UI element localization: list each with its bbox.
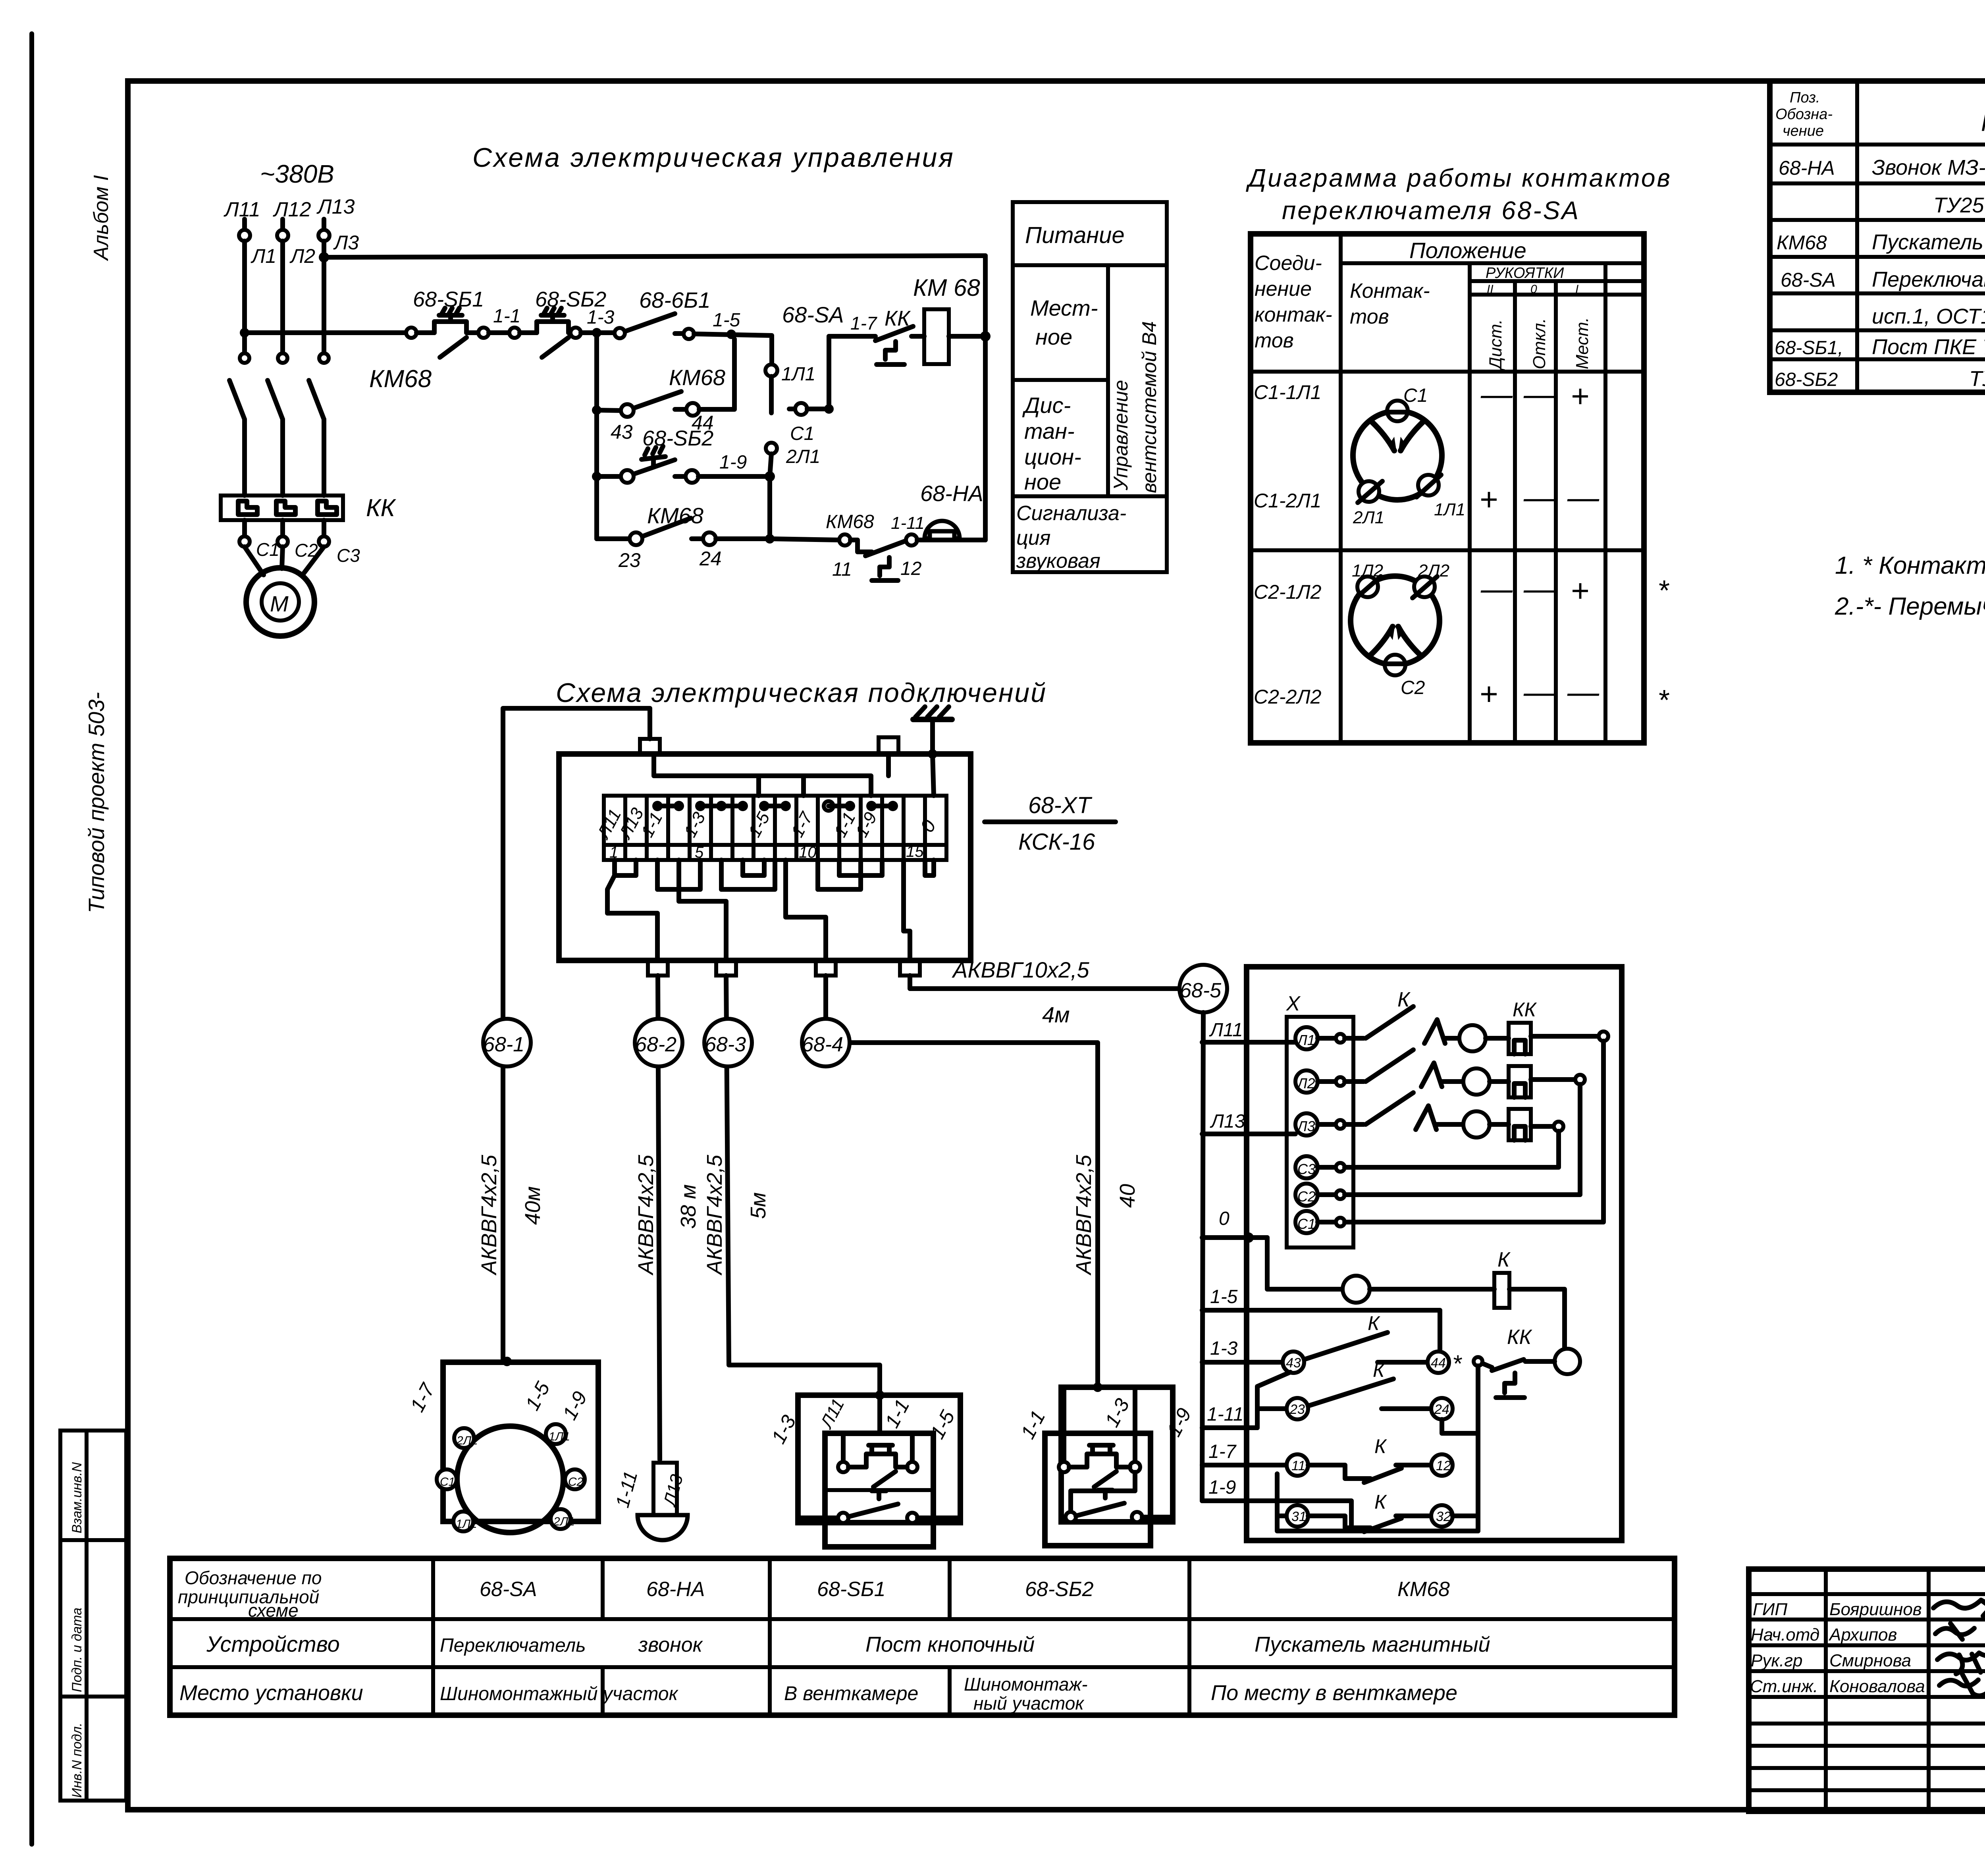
- svg-text:1-11: 1-11: [891, 513, 925, 533]
- svg-text:Обозна-: Обозна-: [1775, 106, 1833, 123]
- svg-text:1-5: 1-5: [1210, 1286, 1238, 1307]
- node holding tap: [727, 330, 736, 339]
- svg-text:—: —: [1480, 571, 1513, 606]
- terminal C2: [1295, 1184, 1345, 1206]
- svg-text:ный участок: ный участок: [973, 1693, 1085, 1714]
- wire: [581, 330, 615, 335]
- jumper dots cells 3-4: [652, 801, 684, 811]
- svg-text:Дис-: Дис-: [1022, 393, 1071, 418]
- svg-text:М: М: [270, 591, 289, 616]
- wire 1-9: [1202, 1501, 1351, 1531]
- svg-text:2.-*- Перемычку снять: 2.-*- Перемычку снять: [1835, 593, 1985, 620]
- svg-text:Л11: Л11: [1209, 1020, 1243, 1041]
- svg-text:Нач.отд: Нач.отд: [1751, 1625, 1819, 1645]
- svg-text:II: II: [1487, 283, 1494, 296]
- node on L3 feeding control bus: [319, 252, 329, 262]
- svg-text:1Л2: 1Л2: [1352, 561, 1383, 580]
- svg-text:Подп. и дата: Подп. и дата: [69, 1608, 85, 1692]
- svg-text:АКВВГ4х2,5: АКВВГ4х2,5: [634, 1155, 658, 1276]
- svg-text:*: *: [1452, 1350, 1462, 1377]
- svg-text:тан-: тан-: [1024, 418, 1075, 443]
- svg-text:1-9: 1-9: [719, 452, 747, 473]
- svg-text:КМ68: КМ68: [1777, 231, 1827, 254]
- svg-text:Пост ПКЕ 712-243, 1/2",: Пост ПКЕ 712-243, 1/2",: [1872, 335, 1985, 359]
- cable circle 68-3: [704, 1019, 752, 1066]
- svg-text:68-SБ2: 68-SБ2: [1775, 369, 1838, 390]
- svg-text:Устройство: Устройство: [206, 1631, 340, 1656]
- pushbutton 68-SB1 NC: [416, 308, 478, 357]
- svg-text:Мест.: Мест.: [1573, 317, 1592, 369]
- svg-text:КМ68: КМ68: [369, 365, 432, 393]
- node ground tap: [928, 749, 937, 759]
- pushbutton 68-SB2 NC: [520, 308, 570, 357]
- svg-text:Откл.: Откл.: [1530, 318, 1549, 369]
- svg-text:схеме: схеме: [248, 1600, 299, 1621]
- svg-text:11: 11: [832, 559, 852, 580]
- wire 0 to lamp: [1267, 1238, 1343, 1289]
- main contact K row3: [1345, 1093, 1463, 1130]
- terminal C3: [319, 536, 329, 547]
- svg-text:15: 15: [906, 843, 924, 860]
- svg-text:КМ68: КМ68: [647, 503, 703, 528]
- svg-text:Мест-: Мест-: [1030, 295, 1098, 320]
- svg-text:10: 10: [799, 844, 817, 861]
- svg-text:1Л1: 1Л1: [1434, 500, 1465, 519]
- svg-text:68-SБ2: 68-SБ2: [1025, 1578, 1094, 1601]
- svg-text:24: 24: [1434, 1402, 1449, 1417]
- wire phase C lead: [322, 219, 326, 230]
- node 1-3 junction: [592, 328, 601, 337]
- lamp HL: [1343, 1276, 1370, 1303]
- svg-text:68-ХТ: 68-ХТ: [1028, 792, 1093, 818]
- svg-text:Л3: Л3: [1297, 1118, 1315, 1134]
- link 43 to 23: [1257, 1372, 1290, 1428]
- aux terminal 11: [1287, 1454, 1308, 1476]
- svg-text:Л12: Л12: [273, 198, 311, 221]
- wire phase C: [322, 241, 326, 353]
- terminal C2: [278, 536, 288, 547]
- internal wiring tangle below strip: [607, 860, 934, 960]
- node rail tap on L1: [240, 328, 249, 337]
- svg-text:КСК-16: КСК-16: [1018, 829, 1095, 855]
- svg-text:Схема электрическая управл: Схема электрическая управления: [472, 143, 955, 173]
- wire L13: [1202, 1132, 1295, 1136]
- state marks row4: [1479, 674, 1600, 711]
- svg-text:I: I: [1575, 283, 1578, 296]
- terminal right row1: [1599, 1032, 1608, 1041]
- svg-text:31: 31: [1291, 1509, 1307, 1524]
- heater KK row3: [1490, 1109, 1554, 1140]
- svg-text:1-5: 1-5: [713, 310, 740, 331]
- svg-text:68-SА: 68-SА: [782, 302, 844, 327]
- svg-text:12: 12: [900, 558, 921, 579]
- svg-text:24: 24: [699, 548, 722, 570]
- lamp row1: [1459, 1025, 1486, 1051]
- bottom link wire: [1277, 1474, 1478, 1531]
- svg-text:68-НА: 68-НА: [920, 481, 983, 506]
- svg-text:40м: 40м: [521, 1186, 545, 1225]
- svg-text:С2: С2: [568, 1475, 584, 1488]
- terminal L1: [239, 230, 250, 241]
- label 68-XT: [985, 792, 1116, 855]
- wire 32 to link: [1453, 1514, 1478, 1518]
- svg-text:68-SБ1: 68-SБ1: [413, 287, 484, 311]
- contact K NC 31-32: [1308, 1516, 1431, 1532]
- svg-text:КМ68: КМ68: [669, 365, 725, 390]
- svg-text:звонок: звонок: [638, 1633, 703, 1656]
- svg-text:Пускатель магнитный: Пускатель магнитный: [1255, 1633, 1490, 1656]
- svg-text:68-НА: 68-НА: [646, 1578, 705, 1601]
- switch state diagram C1: [1353, 401, 1442, 503]
- internal jumper bus above strip: [654, 754, 888, 796]
- svg-text:тов: тов: [1255, 329, 1294, 352]
- main contact K row1: [1345, 1006, 1459, 1043]
- jumper cells 11-12: [824, 801, 855, 811]
- state marks row3: [1480, 571, 1589, 608]
- svg-text:Пускатель магнитный: Пускатель магнитный: [1872, 230, 1985, 254]
- wire ground to cell 0: [933, 754, 934, 796]
- cable 68-5 run: [910, 976, 1179, 989]
- svg-text:4м: 4м: [1042, 1002, 1070, 1027]
- state marks row1: [1480, 376, 1589, 414]
- svg-text:1-9: 1-9: [1208, 1477, 1236, 1498]
- cable circle 68-5: [1179, 965, 1227, 1012]
- enclosure bottom tab C: [816, 960, 836, 976]
- jumper dots cells 5-7: [695, 801, 748, 811]
- svg-text:Л13: Л13: [1210, 1111, 1245, 1132]
- svg-text:Бояришнов: Бояришнов: [1829, 1600, 1922, 1619]
- svg-text:Сигнализа-: Сигнализа-: [1016, 502, 1126, 525]
- thermal contact KK NC: [1482, 1359, 1555, 1398]
- svg-text:2Л1: 2Л1: [786, 446, 820, 467]
- svg-text:X: X: [1286, 992, 1301, 1015]
- enclosure top tab 1: [640, 739, 660, 754]
- terminal box 68-XT enclosure: [559, 754, 971, 960]
- svg-text:+: +: [1571, 573, 1589, 608]
- svg-text:С1: С1: [440, 1475, 455, 1488]
- svg-text:ГИП: ГИП: [1753, 1600, 1787, 1619]
- svg-text:68-SБ1,: 68-SБ1,: [1775, 337, 1843, 359]
- svg-text:ТУ25-05-1045-76: ТУ25-05-1045-76: [1933, 193, 1985, 217]
- svg-text:—: —: [1567, 480, 1600, 515]
- cable circle 68-4: [802, 1019, 850, 1066]
- svg-text:—: —: [1480, 376, 1513, 412]
- contactor KM68 main contact C: [309, 353, 329, 496]
- main contact K row2: [1345, 1050, 1463, 1087]
- svg-text:—: —: [1523, 376, 1556, 412]
- svg-text:С1-1Л1: С1-1Л1: [1254, 381, 1321, 403]
- branch vertical 1-3: [594, 333, 599, 539]
- terminal L2: [1295, 1070, 1345, 1093]
- svg-text:1-7: 1-7: [850, 313, 877, 334]
- svg-text:+: +: [1479, 482, 1498, 517]
- contact K 23-24: [1308, 1379, 1431, 1409]
- svg-text:Инв.N подл.: Инв.N подл.: [69, 1723, 85, 1798]
- svg-text:Шиномонтаж-: Шиномонтаж-: [964, 1674, 1088, 1695]
- terminal L2: [277, 230, 288, 241]
- svg-text:тов: тов: [1350, 305, 1389, 328]
- wire phase A: [242, 241, 247, 353]
- enclosure bottom tab B: [716, 960, 736, 976]
- svg-text:КК: КК: [1507, 1326, 1533, 1349]
- pushbutton 68-SB2 NO 1-9 row: [592, 446, 770, 483]
- svg-text:*: *: [1657, 575, 1669, 607]
- bell 68-HA: [917, 521, 985, 540]
- signatures scribbles: [1933, 1598, 1985, 1696]
- svg-text:11: 11: [1291, 1458, 1305, 1473]
- svg-text:+: +: [1571, 378, 1589, 414]
- svg-text:АКВВГ4х2,5: АКВВГ4х2,5: [703, 1155, 727, 1276]
- svg-text:68-6Б1: 68-6Б1: [639, 287, 711, 312]
- wire to motor terminals: [242, 520, 247, 536]
- node 0 at box edge: [1243, 1232, 1254, 1243]
- svg-text:68-2: 68-2: [635, 1033, 676, 1056]
- svg-text:1Л1: 1Л1: [549, 1430, 570, 1443]
- svg-text:Ст.инж.: Ст.инж.: [1750, 1677, 1818, 1696]
- svg-text:*: *: [1657, 684, 1669, 716]
- svg-text:С1-2Л1: С1-2Л1: [1254, 490, 1321, 512]
- svg-text:68-SБ1: 68-SБ1: [817, 1578, 886, 1601]
- svg-text:С2-2Л2: С2-2Л2: [1254, 686, 1322, 708]
- crossover wire row2 to C2: [1345, 1084, 1580, 1195]
- crossover wire row1 to C1: [1345, 1041, 1603, 1222]
- svg-text:68-НА: 68-НА: [1779, 157, 1835, 179]
- contactor coil KM68: [924, 309, 949, 364]
- svg-text:К: К: [1374, 1491, 1387, 1513]
- jumper dots cells 13-14: [866, 801, 898, 811]
- svg-text:Переключатель: Переключатель: [440, 1635, 586, 1656]
- jumper terminal: [1474, 1357, 1482, 1366]
- svg-text:23: 23: [618, 549, 641, 571]
- selector switch 68-SA box: [437, 1357, 598, 1533]
- enclosure bottom tab A: [648, 960, 668, 976]
- svg-text:К: К: [1497, 1248, 1511, 1271]
- svg-text:1-3: 1-3: [1210, 1338, 1238, 1359]
- wire phase B lead: [280, 219, 285, 230]
- wire lamp to coil: [1370, 1287, 1494, 1292]
- bell 68-HA device: [638, 1463, 688, 1540]
- svg-text:1-1: 1-1: [493, 306, 520, 327]
- lamp row3: [1463, 1111, 1490, 1138]
- svg-text:звуковая: звуковая: [1016, 549, 1100, 573]
- svg-text:Шиномонтажный участок: Шиномонтажный участок: [440, 1683, 679, 1704]
- wire 68-5 main drop: [1202, 1012, 1203, 1501]
- wire cable 68-1 loop: [503, 708, 650, 1362]
- svg-text:Поз.: Поз.: [1790, 89, 1820, 106]
- svg-text:1-7: 1-7: [1208, 1441, 1237, 1462]
- aux terminal 31: [1277, 1505, 1308, 1527]
- svg-text:68-3: 68-3: [705, 1033, 746, 1056]
- svg-text:КК: КК: [366, 494, 397, 522]
- state marks row2: [1479, 480, 1600, 517]
- svg-text:Контак-: Контак-: [1350, 280, 1430, 303]
- svg-text:контак-: контак-: [1255, 303, 1332, 326]
- svg-text:АКВВГ4х2,5: АКВВГ4х2,5: [477, 1155, 501, 1276]
- button post 68-SB2: [1045, 1382, 1173, 1546]
- terminal: [615, 328, 625, 338]
- contact K 43-44: [1304, 1332, 1428, 1362]
- wire phase A lead: [242, 219, 247, 230]
- svg-text:В венткамере: В венткамере: [784, 1682, 918, 1704]
- svg-text:Наименование: Наименование: [1981, 109, 1985, 137]
- svg-text:+: +: [1479, 676, 1498, 711]
- svg-text:68-5: 68-5: [1180, 979, 1222, 1002]
- terminal C1: [1295, 1211, 1345, 1233]
- cable 68-2 drop: [658, 976, 660, 1460]
- aux terminal 32: [1431, 1505, 1453, 1527]
- enclosure bottom tab D: [900, 960, 920, 976]
- wire to 23: [1257, 1406, 1286, 1411]
- svg-text:Переключатель ПП2-10/Н2,У4,: Переключатель ПП2-10/Н2,У4,: [1872, 268, 1985, 291]
- svg-text:68-4: 68-4: [802, 1033, 843, 1056]
- svg-text:С1: С1: [256, 539, 279, 560]
- motor M1: [246, 568, 314, 636]
- svg-text:КМ68: КМ68: [826, 511, 874, 532]
- terminal L3: [1295, 1113, 1345, 1136]
- svg-text:Управление: Управление: [1110, 380, 1132, 491]
- wire 1-11: [1202, 1425, 1257, 1430]
- svg-text:С2: С2: [1297, 1188, 1316, 1205]
- terminal strip KSK-16: [604, 796, 946, 860]
- svg-text:С3: С3: [337, 545, 360, 566]
- svg-text:Соеди-: Соеди-: [1255, 252, 1322, 275]
- svg-text:1. * Контакты не используют: 1. * Контакты не используются.: [1835, 552, 1985, 579]
- button post 68-SB1: [798, 1390, 960, 1547]
- terminal L1: [1295, 1027, 1345, 1049]
- aux terminal 23: [1287, 1398, 1308, 1419]
- svg-text:1-3: 1-3: [587, 307, 615, 328]
- control rail wire: [245, 330, 406, 335]
- svg-text:КК: КК: [1513, 999, 1537, 1021]
- contact 68-6B1 NO: [626, 314, 675, 331]
- svg-text:Коновалова: Коновалова: [1829, 1677, 1925, 1696]
- svg-text:С1: С1: [1403, 385, 1428, 406]
- svg-text:Положение: Положение: [1409, 238, 1526, 263]
- svg-text:1-11: 1-11: [1207, 1404, 1244, 1425]
- svg-text:43: 43: [611, 421, 633, 443]
- rail terminal: [406, 328, 416, 338]
- svg-text:43: 43: [1286, 1355, 1301, 1371]
- svg-text:Л1: Л1: [251, 245, 276, 267]
- lamp row2: [1463, 1068, 1490, 1095]
- svg-text:Смирнова: Смирнова: [1829, 1651, 1911, 1670]
- aux terminal 12: [1431, 1454, 1453, 1476]
- svg-text:—: —: [1523, 480, 1556, 515]
- jumper dots cells 8-9: [759, 801, 791, 811]
- svg-text:Архипов: Архипов: [1828, 1625, 1897, 1645]
- crossover wire row3 to C3: [1345, 1131, 1559, 1167]
- contactor KM68 main contact B: [268, 353, 287, 496]
- top control bus wire: [324, 256, 985, 257]
- cable circle 68-2: [635, 1019, 682, 1066]
- svg-text:ное: ное: [1035, 324, 1072, 349]
- svg-text:44: 44: [1431, 1355, 1446, 1371]
- svg-text:38 м: 38 м: [676, 1184, 700, 1229]
- svg-text:68-SА: 68-SА: [1781, 269, 1836, 291]
- ground symbol: [913, 707, 952, 754]
- svg-text:нение: нение: [1255, 278, 1312, 301]
- svg-text:КК: КК: [885, 307, 911, 330]
- aux contact KM68 23-24 row: [597, 476, 775, 545]
- svg-text:ция: ция: [1016, 526, 1050, 549]
- svg-text:К: К: [1373, 1359, 1386, 1381]
- svg-text:Л2: Л2: [289, 245, 315, 267]
- terminal 1-3: [570, 328, 581, 338]
- svg-text:Пост кнопочный: Пост кнопочный: [865, 1633, 1035, 1656]
- wire: [489, 330, 509, 335]
- svg-text:23: 23: [1289, 1402, 1305, 1417]
- svg-text:Л11: Л11: [224, 198, 260, 221]
- wire 1-5: [1202, 1310, 1440, 1352]
- thermal contact KK NC: [829, 326, 924, 364]
- aux terminal 43: [1283, 1352, 1304, 1373]
- wire coil to bus: [949, 334, 985, 339]
- wire 24 link: [1442, 1419, 1478, 1433]
- terminal 1-5: [684, 329, 694, 339]
- heater KK row1: [1486, 1023, 1599, 1054]
- contact K NC 11-12: [1308, 1465, 1431, 1483]
- return circle: [1555, 1349, 1580, 1374]
- svg-text:2Л1: 2Л1: [553, 1515, 575, 1528]
- svg-text:КМ68: КМ68: [1397, 1578, 1450, 1601]
- svg-text:Взам.инв.N: Взам.инв.N: [69, 1462, 85, 1533]
- right return wire: [983, 256, 988, 540]
- svg-text:К: К: [1374, 1435, 1387, 1458]
- terminal right row3: [1554, 1122, 1563, 1131]
- svg-text:Диаграмма работы контактов: Диаграмма работы контактов: [1246, 164, 1672, 192]
- svg-text:Звонок МЗ-1, ~380В,: Звонок МЗ-1, ~380В,: [1872, 156, 1985, 179]
- svg-text:Л1: Л1: [1297, 1032, 1315, 1048]
- svg-text:32: 32: [1436, 1509, 1451, 1524]
- svg-text:По месту в венткамере: По месту в венткамере: [1211, 1681, 1457, 1705]
- terminal L3: [318, 230, 330, 241]
- svg-text:Л3: Л3: [333, 231, 359, 254]
- svg-text:Питание: Питание: [1025, 222, 1125, 248]
- coil K: [1494, 1273, 1509, 1308]
- svg-text:С2-1Л2: С2-1Л2: [1254, 581, 1322, 603]
- left trim line: [29, 34, 34, 1844]
- terminal C1: [239, 536, 250, 547]
- node: [980, 331, 991, 341]
- svg-text:С1: С1: [790, 423, 814, 444]
- svg-text:68-SБ2: 68-SБ2: [642, 426, 713, 450]
- enclosure top tab 2: [879, 737, 898, 754]
- svg-text:исп.1, ОСТ16.0526.001-77: исп.1, ОСТ16.0526.001-77: [1872, 305, 1985, 328]
- wire: [675, 331, 684, 336]
- svg-text:2Л1: 2Л1: [1353, 508, 1384, 527]
- svg-text:2Л2: 2Л2: [456, 1434, 478, 1447]
- svg-text:40: 40: [1116, 1184, 1139, 1208]
- cable 68-4 run: [823, 976, 828, 1043]
- aux terminal 24: [1431, 1398, 1453, 1419]
- vertical link wire: [1476, 1366, 1480, 1531]
- svg-text:68-SА: 68-SА: [480, 1578, 537, 1601]
- svg-text:2Л2: 2Л2: [1418, 561, 1449, 580]
- switch state diagram C2: [1351, 576, 1440, 675]
- terminal block X: [1287, 1017, 1353, 1247]
- terminal: [509, 328, 520, 338]
- svg-text:68-1: 68-1: [483, 1033, 524, 1056]
- contactor KM68 main contact A: [229, 353, 249, 496]
- svg-text:—: —: [1567, 674, 1600, 710]
- cable 68-3 drop: [726, 976, 880, 1394]
- svg-text:ТУ16-526.216-78: ТУ16-526.216-78: [1969, 367, 1985, 391]
- svg-text:1Л1: 1Л1: [781, 364, 815, 385]
- svg-text:—: —: [1523, 571, 1556, 606]
- cable circle 68-1: [483, 1019, 531, 1066]
- wire phase B: [280, 241, 285, 353]
- margin bottom table: [60, 1431, 126, 1801]
